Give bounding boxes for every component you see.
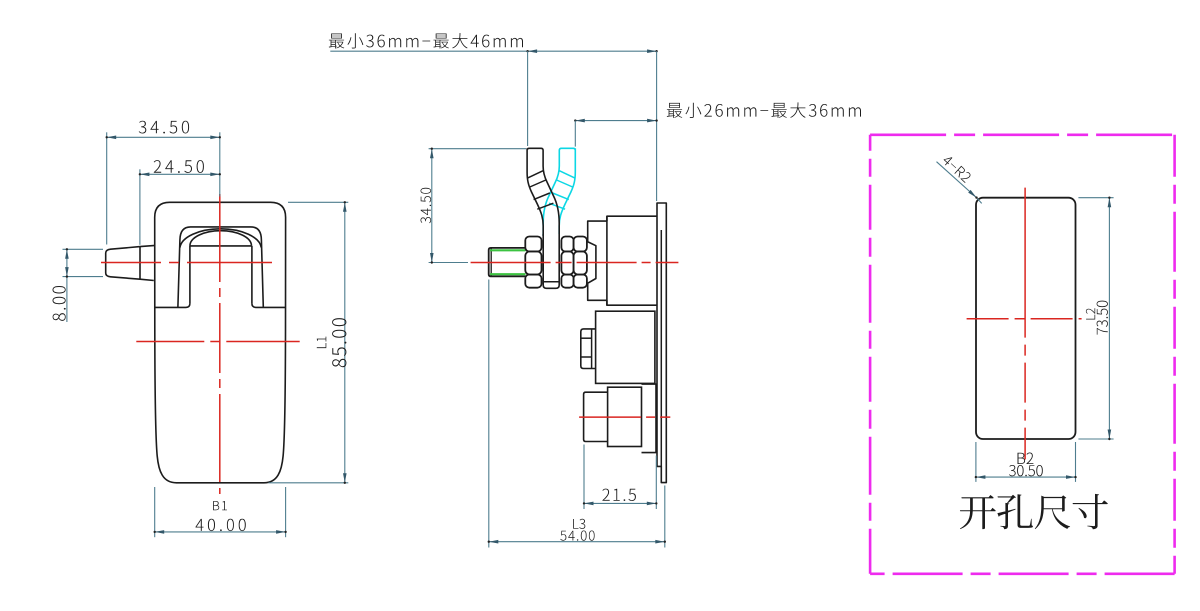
dimension min26-max36 [575, 120, 656, 122]
dimension 34.50 (side view) [429, 148, 526, 150]
hook arm alternate position (cyan) [543, 148, 575, 236]
centerline vertical (left view) [219, 194, 221, 494]
title 开孔尺寸 [960, 494, 1108, 529]
dimension L3 54.00 [488, 280, 490, 548]
arch inner curve [190, 231, 252, 246]
dimension B1 40.00 [154, 487, 156, 537]
drum right edge [251, 246, 253, 304]
centerline lever axis [101, 262, 272, 264]
panel cutout boundary (magenta phantom) [870, 134, 1175, 137]
dimension L1 85.00 [288, 201, 348, 203]
dimension min36-max46 with leader [330, 50, 527, 52]
hex nut 1 (front) [525, 237, 541, 252]
bolt shank with thread (green) [489, 248, 526, 276]
main body block [607, 216, 657, 305]
adjuster hex head [581, 329, 596, 369]
arch chord line [190, 245, 252, 247]
dimension B2 30.50 [975, 442, 977, 482]
hook arm (black) [527, 148, 559, 236]
latch body outline (front view) [155, 202, 286, 483]
drum left edge [189, 246, 191, 304]
dimension 34.50 (left view top) [106, 132, 108, 244]
dimension 21.5 [583, 445, 585, 510]
dimension L2 73.50 [1078, 197, 1113, 199]
cutout hole rounded rect [976, 198, 1076, 439]
hook arm lower bar [543, 234, 559, 288]
cutout centerline horizontal [967, 318, 1082, 320]
centerline lower block axis [579, 416, 670, 418]
centerline bolt axis [471, 262, 679, 264]
bail foot line right [252, 303, 286, 307]
bail foot line left [155, 303, 190, 307]
lower cam blocks [584, 392, 608, 441]
radius label 4-R2 [937, 162, 977, 198]
arch outer curve [180, 229, 261, 248]
main body block sides [606, 216, 608, 305]
cone adapter [587, 241, 596, 283]
lever crease line [139, 247, 141, 280]
dimension 24.50 [139, 169, 141, 245]
body front step block [588, 221, 607, 300]
cutout centerline vertical [1024, 188, 1026, 460]
middle block [596, 311, 655, 383]
hex nut 2 (stack) [561, 237, 573, 252]
mounting plate [657, 203, 666, 483]
bail window outline [178, 227, 263, 307]
centerline mid-body [136, 341, 299, 343]
lever (trigger) outline [106, 245, 156, 280]
dimension 8.00 [63, 248, 104, 250]
